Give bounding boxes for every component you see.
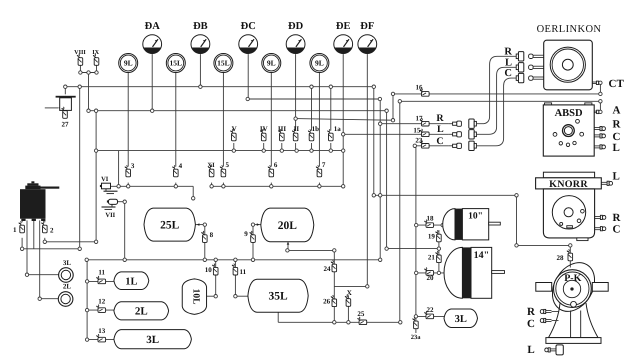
svg-text:ĐC: ĐC <box>241 21 256 32</box>
svg-text:XI: XI <box>207 162 215 169</box>
svg-text:1: 1 <box>13 226 17 234</box>
svg-text:ĐB: ĐB <box>193 21 208 32</box>
svg-text:25: 25 <box>357 310 365 318</box>
svg-text:10L: 10L <box>191 289 201 305</box>
svg-text:11: 11 <box>98 269 105 277</box>
svg-text:25L: 25L <box>160 220 180 232</box>
svg-text:26: 26 <box>323 298 331 306</box>
svg-text:V: V <box>232 125 237 133</box>
svg-text:ABSD: ABSD <box>555 108 583 119</box>
svg-text:19: 19 <box>428 233 436 241</box>
svg-text:3L: 3L <box>146 334 159 346</box>
svg-text:L: L <box>613 142 620 154</box>
svg-text:23a: 23a <box>411 334 422 341</box>
svg-text:IV: IV <box>260 125 268 133</box>
svg-text:R: R <box>504 46 512 57</box>
svg-text:10": 10" <box>468 212 483 222</box>
svg-text:14": 14" <box>474 250 490 261</box>
svg-text:C: C <box>613 223 621 235</box>
svg-text:CT: CT <box>609 78 625 90</box>
svg-text:9: 9 <box>244 230 248 238</box>
svg-text:23: 23 <box>415 137 423 145</box>
svg-text:ĐD: ĐD <box>288 21 304 32</box>
svg-text:OERLINKON: OERLINKON <box>537 24 602 35</box>
svg-text:8: 8 <box>210 231 214 239</box>
svg-text:VIII: VIII <box>74 49 86 56</box>
svg-text:R: R <box>613 212 622 224</box>
svg-text:C: C <box>527 318 535 330</box>
svg-text:ĐE: ĐE <box>336 21 351 32</box>
svg-text:1L: 1L <box>125 276 137 287</box>
svg-text:IX: IX <box>92 49 99 56</box>
svg-text:4: 4 <box>179 162 183 170</box>
svg-text:1b: 1b <box>312 125 320 133</box>
svg-text:20L: 20L <box>278 220 298 232</box>
svg-text:L: L <box>505 57 512 68</box>
svg-text:9L: 9L <box>124 59 133 68</box>
svg-text:20: 20 <box>427 274 435 282</box>
svg-text:6: 6 <box>274 161 278 169</box>
svg-text:L: L <box>437 124 444 135</box>
svg-text:24: 24 <box>324 265 332 273</box>
svg-text:7: 7 <box>322 161 326 169</box>
svg-text:2L: 2L <box>135 306 148 318</box>
svg-text:15: 15 <box>413 127 421 135</box>
svg-text:X: X <box>347 289 352 297</box>
svg-text:VI: VI <box>101 176 109 183</box>
svg-text:11: 11 <box>239 268 246 276</box>
svg-text:II: II <box>294 125 300 133</box>
svg-text:9L: 9L <box>315 59 324 68</box>
svg-text:III: III <box>278 125 286 133</box>
svg-text:A: A <box>613 104 621 116</box>
svg-text:R: R <box>527 306 536 318</box>
svg-text:C: C <box>436 136 443 147</box>
svg-text:27: 27 <box>62 121 70 129</box>
svg-text:2L: 2L <box>63 283 72 291</box>
svg-text:1a: 1a <box>334 125 342 133</box>
svg-text:R: R <box>613 119 622 131</box>
svg-text:L: L <box>527 344 534 356</box>
svg-text:C: C <box>504 68 512 79</box>
svg-text:17: 17 <box>416 114 424 122</box>
svg-text:18: 18 <box>427 215 435 223</box>
svg-text:3L: 3L <box>455 314 467 325</box>
svg-text:3L: 3L <box>63 259 72 267</box>
svg-text:2: 2 <box>50 227 54 235</box>
svg-text:21: 21 <box>428 253 436 261</box>
svg-text:13: 13 <box>98 327 106 335</box>
svg-text:C: C <box>613 131 621 143</box>
svg-text:22: 22 <box>427 306 435 314</box>
svg-text:15L: 15L <box>170 59 183 68</box>
svg-text:R: R <box>436 113 444 124</box>
svg-text:9L: 9L <box>267 59 276 68</box>
svg-text:35L: 35L <box>268 291 288 303</box>
svg-text:10: 10 <box>205 266 213 274</box>
svg-text:ĐF: ĐF <box>360 21 374 32</box>
svg-text:5: 5 <box>225 161 229 169</box>
svg-text:ĐA: ĐA <box>145 21 161 32</box>
svg-text:12: 12 <box>98 297 106 305</box>
svg-text:L: L <box>613 171 620 183</box>
svg-text:28: 28 <box>557 254 565 262</box>
svg-text:15L: 15L <box>217 59 230 68</box>
svg-text:VII: VII <box>105 212 115 219</box>
svg-text:16: 16 <box>416 84 424 92</box>
svg-text:3: 3 <box>131 162 135 170</box>
